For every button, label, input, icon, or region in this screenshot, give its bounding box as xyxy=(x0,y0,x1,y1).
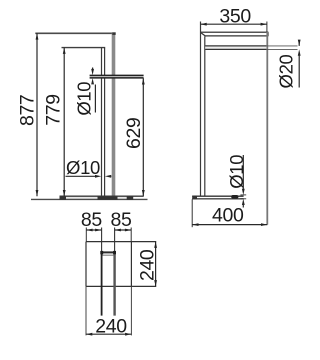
svg-text:400: 400 xyxy=(212,205,244,227)
svg-text:240: 240 xyxy=(136,249,158,281)
svg-text:350: 350 xyxy=(219,6,251,28)
svg-text:Ø20: Ø20 xyxy=(275,54,296,88)
svg-text:Ø10: Ø10 xyxy=(74,82,95,116)
svg-text:85: 85 xyxy=(81,209,102,231)
svg-text:85: 85 xyxy=(111,209,132,231)
svg-text:240: 240 xyxy=(95,315,127,337)
svg-text:877: 877 xyxy=(16,95,38,127)
svg-text:629: 629 xyxy=(123,117,145,149)
svg-text:Ø10: Ø10 xyxy=(66,157,100,178)
svg-text:Ø10: Ø10 xyxy=(226,155,247,189)
svg-text:779: 779 xyxy=(43,94,65,126)
